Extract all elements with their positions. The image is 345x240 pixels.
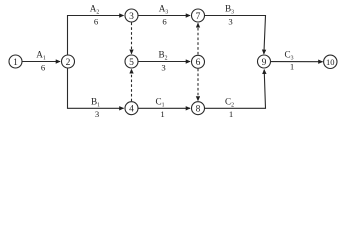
node 6	[192, 55, 205, 68]
node 7	[192, 9, 205, 22]
node 8	[192, 102, 205, 115]
svg-text:A2: A2	[90, 4, 100, 16]
svg-text:3: 3	[161, 62, 165, 72]
svg-text:3: 3	[228, 16, 232, 26]
svg-text:3: 3	[95, 109, 99, 119]
dummy arrow 3-5 dashed down	[131, 23, 133, 54]
svg-text:10: 10	[326, 57, 335, 67]
wire A3 arrow 3-7	[138, 15, 190, 17]
svg-text:1: 1	[229, 109, 233, 119]
node 10	[324, 55, 337, 68]
dummy arrow 4-5 dashed up	[131, 69, 133, 101]
wire A2 arrow 2-3 (up then right)	[68, 16, 124, 55]
svg-text:6: 6	[162, 16, 167, 26]
svg-text:B2: B2	[158, 50, 167, 62]
svg-text:C1: C1	[155, 97, 164, 109]
dummy arrow 6-7 dashed up	[197, 23, 199, 54]
wire B2 arrow 5-6	[138, 61, 190, 63]
svg-text:1: 1	[13, 58, 18, 68]
svg-text:B1: B1	[91, 97, 100, 109]
wire C3 arrow 9-10	[271, 61, 323, 63]
svg-text:3: 3	[129, 12, 134, 22]
svg-text:1: 1	[290, 62, 294, 72]
svg-text:8: 8	[196, 105, 201, 115]
wire B3 arrow 7-9 (right then down)	[205, 16, 266, 54]
node 5	[125, 55, 138, 68]
svg-text:C3: C3	[284, 50, 293, 62]
svg-text:5: 5	[129, 58, 134, 68]
wire A1 arrow 1-2	[22, 61, 60, 63]
wire C1 arrow 4-8	[138, 107, 190, 109]
wire B1 arrow 2-4 (down then right)	[68, 68, 124, 108]
svg-text:1: 1	[160, 109, 164, 119]
node 1	[9, 55, 22, 68]
svg-text:6: 6	[196, 58, 201, 68]
svg-text:A3: A3	[159, 4, 169, 16]
svg-text:B3: B3	[225, 4, 234, 16]
svg-text:2: 2	[66, 58, 71, 68]
svg-text:6: 6	[94, 16, 99, 26]
svg-text:C2: C2	[225, 97, 234, 109]
node 9	[258, 55, 271, 68]
svg-text:A1: A1	[36, 50, 46, 62]
svg-text:9: 9	[262, 58, 267, 68]
svg-text:7: 7	[196, 12, 201, 22]
node 3	[125, 9, 138, 22]
node 2	[62, 55, 75, 68]
svg-text:6: 6	[41, 62, 46, 72]
wire C2 arrow 8-9 (right then up)	[205, 70, 266, 109]
svg-text:4: 4	[129, 105, 134, 115]
dummy arrow 6-8 dashed down	[197, 69, 199, 101]
node 4	[125, 102, 138, 115]
